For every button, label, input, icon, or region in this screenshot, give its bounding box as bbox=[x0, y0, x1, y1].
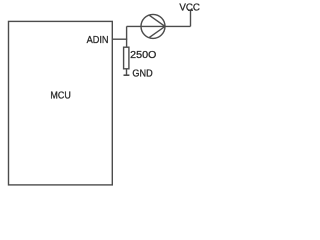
svg-text:250O: 250O bbox=[130, 50, 156, 61]
svg-text:MCU: MCU bbox=[50, 91, 70, 102]
svg-text:GND: GND bbox=[132, 69, 152, 80]
svg-text:VCC: VCC bbox=[179, 3, 200, 14]
svg-text:ADIN: ADIN bbox=[87, 35, 109, 46]
